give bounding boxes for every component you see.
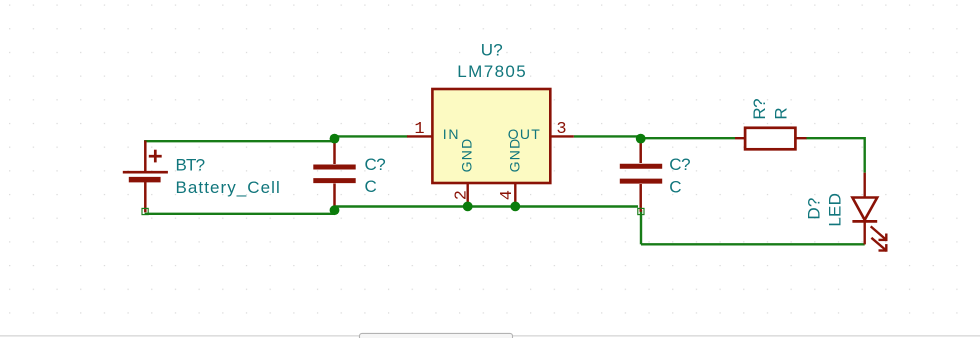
capacitor C2 bbox=[620, 138, 662, 212]
svg-text:LM7805: LM7805 bbox=[457, 62, 527, 81]
wire C1 bottom junction to C2 bottom bbox=[335, 205, 639, 207]
wire bottom rail to LED bbox=[641, 243, 865, 245]
svg-text:R: R bbox=[771, 107, 790, 119]
svg-text:R?: R? bbox=[750, 99, 769, 120]
battery BT? bbox=[123, 141, 168, 213]
capacitor C1 bbox=[313, 138, 355, 210]
svg-text:GND: GND bbox=[507, 138, 523, 173]
scrollbar track bbox=[0, 335, 980, 337]
svg-text:Battery_Cell: Battery_Cell bbox=[176, 178, 281, 197]
svg-text:1: 1 bbox=[414, 120, 424, 139]
svg-text:LED: LED bbox=[826, 193, 845, 227]
wire end square at battery bottom bbox=[142, 208, 148, 214]
LED D1 bbox=[852, 173, 886, 252]
U1 pin 1 bbox=[407, 135, 432, 137]
junction pin 2 bbox=[463, 202, 473, 212]
wire top right corner down to LED bbox=[864, 137, 866, 173]
junction C1 bottom bbox=[330, 205, 340, 215]
U1 pin 3 bbox=[550, 135, 574, 137]
svg-text:D?: D? bbox=[805, 197, 824, 219]
wire resistor to top right corner bbox=[806, 137, 865, 139]
scrollbar thumb bbox=[360, 333, 513, 338]
junction pin 4 bbox=[510, 202, 520, 212]
svg-text:C?: C? bbox=[669, 155, 690, 174]
wire C1 junction to U1 pin 1 bbox=[335, 135, 408, 137]
U1 pin 2 bbox=[467, 184, 469, 206]
svg-text:GND: GND bbox=[458, 138, 474, 173]
wire end square at C2 bottom bbox=[638, 208, 644, 214]
resistor R1 bbox=[735, 128, 807, 150]
U1 pin 4 bbox=[514, 184, 516, 206]
wire U1 pin 3 to C2 junction bbox=[574, 135, 641, 137]
svg-text:C: C bbox=[365, 177, 377, 196]
svg-text:U?: U? bbox=[481, 41, 503, 60]
svg-text:C: C bbox=[669, 178, 681, 197]
svg-text:C?: C? bbox=[365, 155, 386, 174]
svg-text:BT?: BT? bbox=[176, 155, 205, 174]
wire battery bottom to C1 bottom junction bbox=[145, 213, 335, 215]
junction C1 top bbox=[330, 134, 340, 144]
svg-text:4: 4 bbox=[498, 190, 517, 200]
junction C2 top bbox=[636, 134, 646, 144]
wire battery top to C1 junction bbox=[144, 140, 334, 142]
wire C2 bottom down bbox=[640, 210, 642, 244]
svg-text:2: 2 bbox=[452, 190, 471, 200]
svg-text:3: 3 bbox=[556, 120, 566, 139]
regulator U1 LM7805 body bbox=[432, 89, 550, 183]
wire C2 junction to resistor bbox=[641, 137, 735, 139]
